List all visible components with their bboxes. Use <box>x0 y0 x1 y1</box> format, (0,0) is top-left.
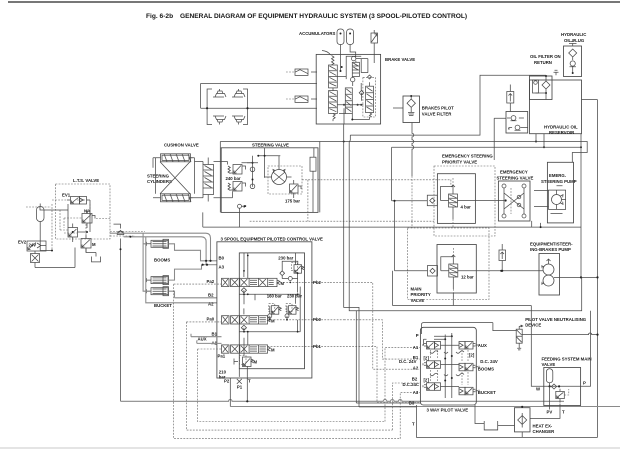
svg-text:RETURN: RETURN <box>534 60 552 65</box>
pump suction wires <box>532 221 541 227</box>
svg-text:EV1: EV1 <box>62 193 71 198</box>
svg-text:OIL PLUG: OIL PLUG <box>564 38 585 43</box>
inline coupling valve upper <box>286 69 317 75</box>
Pb pilot routes <box>368 346 420 402</box>
bracket mid <box>243 89 248 125</box>
svg-text:T: T <box>562 409 565 414</box>
pump output wires <box>489 134 598 278</box>
svg-text:M: M <box>271 318 275 323</box>
svg-text:24V: 24V <box>29 243 37 248</box>
internal links <box>333 66 344 124</box>
supply bus lower <box>392 147 581 201</box>
boom cylinder wires <box>143 244 146 280</box>
AUX service lines <box>191 334 222 344</box>
svg-text:BOOMS: BOOMS <box>478 367 494 372</box>
svg-text:[2]: [2] <box>424 378 430 383</box>
Pb1 dashed <box>268 345 369 347</box>
svg-text:STEERING VALVE: STEERING VALVE <box>497 176 534 181</box>
bracket left <box>207 89 212 125</box>
svg-text:Pa0: Pa0 <box>207 317 215 322</box>
Pa pilot risers <box>400 393 420 439</box>
svg-text:EQUIPMENTISTEER-: EQUIPMENTISTEER- <box>530 242 573 247</box>
relief 240bar upper <box>233 165 242 175</box>
steering drain <box>203 212 581 227</box>
svg-text:Pb2: Pb2 <box>313 280 321 285</box>
LTS valve b <box>68 224 78 243</box>
control valve inner box <box>239 253 304 369</box>
Pb2 dashed <box>277 281 330 283</box>
steering valve feeds left <box>191 158 233 198</box>
steering unit circle <box>272 170 287 185</box>
svg-text:P: P <box>244 204 247 209</box>
LS dashed line <box>302 180 451 221</box>
LTS accumulator <box>37 207 53 251</box>
relief pair row2 b <box>285 304 299 320</box>
junction dots <box>206 107 208 109</box>
return line to filter <box>350 75 546 135</box>
rails row2-3 <box>239 320 300 332</box>
svg-text:A3: A3 <box>219 265 225 270</box>
svg-text:Fig. 6-2b: Fig. 6-2b <box>146 13 173 20</box>
Pa0 dashed left <box>186 322 392 430</box>
175bar relief <box>290 184 299 193</box>
steering cylinder 2 <box>156 194 193 202</box>
pilot row 2 left valve <box>423 356 441 369</box>
svg-text:3 SPOOL EQUIPMENT PILOTED CONT: 3 SPOOL EQUIPMENT PILOTED CONTROL VALVE <box>221 237 323 242</box>
boom feed wire a <box>110 233 211 291</box>
svg-text:EMERG.: EMERG. <box>549 173 566 178</box>
svg-text:B0: B0 <box>219 256 225 261</box>
equipment pump <box>539 254 560 296</box>
svg-text:VALVE FILTER: VALVE FILTER <box>422 112 452 117</box>
svg-text:MAIN: MAIN <box>411 287 422 292</box>
svg-text:PV: PV <box>547 409 553 414</box>
wires LTS area <box>40 200 90 242</box>
supply bus in valve <box>242 148 281 178</box>
Pb0 dashed <box>268 319 345 321</box>
svg-text:Pb0: Pb0 <box>313 317 321 322</box>
svg-text:4 bar: 4 bar <box>461 205 472 210</box>
spool B spring <box>333 114 335 122</box>
svg-text:FEEDING SYSTEM MAIN: FEEDING SYSTEM MAIN <box>542 356 592 361</box>
pilot feed pair verticals <box>344 124 359 407</box>
svg-text:P: P <box>583 381 586 386</box>
svg-text:STEERING PUMP: STEERING PUMP <box>541 179 577 184</box>
steering valve box <box>221 148 318 213</box>
svg-text:PRIORITY: PRIORITY <box>411 292 431 297</box>
svg-text:12 bar: 12 bar <box>461 275 474 280</box>
emergency priority inner box <box>437 174 475 224</box>
bucket service wires <box>169 291 218 298</box>
steering valve internals <box>226 148 303 227</box>
pilot row 3 left valve <box>423 378 441 391</box>
priority supply elbow <box>392 187 453 201</box>
oil filter on return box <box>530 75 553 100</box>
main priority inner box <box>437 245 476 294</box>
spool rails verticals <box>244 278 305 355</box>
spool 1 boom section <box>222 271 285 294</box>
cushion cross wires <box>156 158 195 194</box>
svg-text:D.C. 24V: D.C. 24V <box>480 359 498 364</box>
feeding enclosure <box>531 306 590 387</box>
svg-text:ACCUMULATORS: ACCUMULATORS <box>299 31 335 36</box>
svg-text:HYDRAULIC OIL: HYDRAULIC OIL <box>544 125 578 130</box>
svg-text:ING-BRAKES PUMP: ING-BRAKES PUMP <box>530 247 571 252</box>
pilot row 1 left valve <box>423 342 441 350</box>
main priority dashed box <box>408 228 490 300</box>
T return bus <box>417 405 598 437</box>
svg-text:P: P <box>416 333 419 338</box>
top rule <box>8 1 620 3</box>
supply riser to main priority <box>394 201 396 271</box>
svg-text:A2: A2 <box>413 366 419 371</box>
tank return bus <box>220 142 587 213</box>
svg-text:CYLINDERS: CYLINDERS <box>147 179 172 184</box>
spool rails row1 <box>244 253 300 304</box>
svg-text:AUX: AUX <box>198 337 207 342</box>
pilot row 2 right valve <box>459 353 479 371</box>
accumulator 2 <box>347 29 356 57</box>
steering valve compartment <box>310 157 316 171</box>
pilot row 1 right valve <box>459 342 479 350</box>
actuator 4 <box>232 116 245 125</box>
right bus vertical <box>582 100 598 438</box>
reservoir breather tee <box>554 70 559 75</box>
check diamond <box>359 91 364 101</box>
svg-text:NA: NA <box>84 209 90 214</box>
bottom rule <box>0 447 620 449</box>
svg-text:Pb1: Pb1 <box>313 344 321 349</box>
svg-text:M: M <box>92 242 96 247</box>
LTS pressure valve NA <box>82 209 95 229</box>
hydraulic oil plug symbol <box>564 42 582 77</box>
reducing valve bracket <box>346 56 361 79</box>
main priority spool <box>441 248 489 306</box>
svg-text:RESERVOIR: RESERVOIR <box>549 130 575 135</box>
mid rail row1-2 <box>239 294 300 304</box>
tank symbol bottom <box>475 405 515 430</box>
spool A <box>329 65 338 88</box>
pilot valve neutralising device <box>516 325 523 350</box>
priority bypass bottom <box>393 271 532 306</box>
svg-text:A2: A2 <box>208 302 214 307</box>
pilot row 3 right valve <box>459 387 479 395</box>
port P circle <box>238 204 242 208</box>
relief 230bar top <box>278 256 304 281</box>
pilot check valve <box>114 224 125 401</box>
svg-text:P1: P1 <box>237 385 243 390</box>
steering cylinder left drops <box>153 158 156 198</box>
relief valve mid <box>507 85 514 112</box>
svg-text:175 bar: 175 bar <box>285 199 300 204</box>
L.T.S. valve dashed box <box>56 184 111 239</box>
svg-text:T: T <box>412 422 415 427</box>
spool 3 aux section <box>222 345 276 353</box>
LTS valve c <box>81 235 96 252</box>
wire lower feed <box>201 107 317 109</box>
control valve outer box <box>217 242 312 378</box>
priority check square <box>427 195 437 206</box>
pilot solenoid symbol <box>371 30 378 63</box>
emergency steering valve box <box>498 181 530 221</box>
svg-text:M: M <box>281 281 285 286</box>
svg-text:P2: P2 <box>224 379 230 384</box>
right spool dashed enclosure <box>363 77 375 117</box>
spool A spring <box>322 51 334 65</box>
EV2 solenoid block <box>27 241 75 268</box>
emergency steering pump <box>534 162 574 223</box>
svg-text:STEERING: STEERING <box>147 174 170 179</box>
pilot dashed bus mid <box>250 221 434 228</box>
svg-text:BOOMS: BOOMS <box>154 258 170 263</box>
svg-text:GENERAL DIAGRAM OF EQUIPMENT H: GENERAL DIAGRAM OF EQUIPMENT HYDRAULIC S… <box>180 13 467 20</box>
svg-text:D.C. 24V: D.C. 24V <box>399 359 417 364</box>
main priority check square <box>395 257 454 276</box>
svg-text:EMERGENCY STEERING: EMERGENCY STEERING <box>442 153 493 158</box>
LTS tank symbol <box>86 248 101 262</box>
spool 2 bucket section <box>222 308 276 331</box>
actuator 2 <box>232 89 245 97</box>
svg-text:160 bar: 160 bar <box>267 293 282 298</box>
svg-text:T: T <box>248 379 251 384</box>
neutralising feed line <box>493 323 516 331</box>
svg-text:HYDRAULIC: HYDRAULIC <box>561 32 586 37</box>
svg-text:DEVICE: DEVICE <box>525 323 541 328</box>
svg-text:[2]: [2] <box>469 353 475 358</box>
Pa1 dashed left <box>198 349 386 422</box>
reservoir outlet legs <box>536 134 544 148</box>
brake valve internals <box>322 51 375 125</box>
steering cylinder 1 <box>156 154 193 162</box>
long bottom bus from left <box>121 399 565 401</box>
svg-text:Pa2: Pa2 <box>207 279 215 284</box>
unit box <box>268 166 302 194</box>
filter drop wire <box>412 123 414 177</box>
actuator 1 <box>213 89 226 97</box>
svg-text:BUCKET: BUCKET <box>154 303 172 308</box>
pump feed vertical from filter <box>494 118 506 160</box>
check circles <box>250 167 255 172</box>
boom cylinder 1 <box>147 239 169 248</box>
svg-text:BRAKE VALVE: BRAKE VALVE <box>385 57 415 62</box>
svg-text:B2: B2 <box>412 377 418 382</box>
3 way pilot valve box <box>420 327 476 405</box>
T drop wire <box>246 378 248 401</box>
svg-text:BUCKET: BUCKET <box>478 390 496 395</box>
emergency priority dashed box <box>434 166 495 236</box>
boom cylinder 2 <box>147 276 169 285</box>
equip pump relief <box>499 244 506 272</box>
P2 drop wire <box>229 378 231 407</box>
svg-text:B2: B2 <box>208 293 214 298</box>
reducing valve <box>352 62 359 76</box>
actuator 3 <box>213 116 226 125</box>
svg-text:M: M <box>254 360 258 365</box>
svg-text:VALVE: VALVE <box>542 362 556 367</box>
main relief 210bar <box>234 356 258 367</box>
svg-text:VALVE: VALVE <box>411 298 425 303</box>
svg-text:M: M <box>271 348 275 353</box>
pilot center rails <box>424 333 469 398</box>
right spool <box>366 86 374 112</box>
bucket cylinder <box>147 287 169 296</box>
accumulator 1 <box>337 29 344 66</box>
svg-text:BRAKES PILOT: BRAKES PILOT <box>422 106 454 111</box>
relief pair row2 a <box>268 304 282 320</box>
wire top feed <box>201 84 317 109</box>
A3 line <box>203 264 217 266</box>
gray long bus mid <box>356 277 581 310</box>
svg-text:CUSHION VALVE: CUSHION VALVE <box>164 143 199 148</box>
svg-text:PILOT VALVE NEUTRALISING: PILOT VALVE NEUTRALISING <box>525 317 587 322</box>
B0 line <box>206 260 217 262</box>
brake actuators block <box>201 84 317 125</box>
cushion valve block <box>195 158 214 202</box>
feeding system main valve box <box>544 368 581 406</box>
svg-text:OIL FILTER ON: OIL FILTER ON <box>530 54 561 59</box>
Pa2 dashed left <box>174 284 401 439</box>
svg-text:240 bar: 240 bar <box>226 176 241 181</box>
spool B <box>329 91 338 114</box>
svg-text:3 WAY PILOT VALVE: 3 WAY PILOT VALVE <box>427 407 469 412</box>
svg-text:PRIORITY VALVE: PRIORITY VALVE <box>442 159 477 164</box>
svg-text:EV2: EV2 <box>18 240 27 245</box>
svg-text:STEERING VALVE: STEERING VALVE <box>252 143 289 148</box>
mid spool <box>345 88 352 114</box>
heat exchanger <box>515 406 531 438</box>
brake valve box <box>316 54 380 124</box>
EV1 solenoid valve <box>67 197 90 211</box>
suction check box <box>506 112 528 134</box>
neutralising to right bus <box>522 333 597 335</box>
svg-text:[2]: [2] <box>424 356 430 361</box>
line priority to emergency valve <box>468 200 499 202</box>
P supply line top <box>422 323 493 334</box>
hydraulic oil reservoir box <box>530 80 582 135</box>
svg-text:230 bar: 230 bar <box>278 256 293 261</box>
svg-text:L.T.S. VALVE: L.T.S. VALVE <box>73 178 99 183</box>
svg-text:HEAT EX-: HEAT EX- <box>533 424 553 429</box>
relief 240bar lower <box>233 182 242 192</box>
inline coupling valve lower <box>286 96 317 102</box>
brakes pilot valve filter box <box>393 95 420 123</box>
boom feed wire b <box>124 237 217 303</box>
svg-text:Pa1: Pa1 <box>218 354 226 359</box>
svg-text:CHANGER: CHANGER <box>533 429 556 434</box>
priority spool <box>441 178 472 228</box>
svg-text:EMERGENCY: EMERGENCY <box>500 170 528 175</box>
